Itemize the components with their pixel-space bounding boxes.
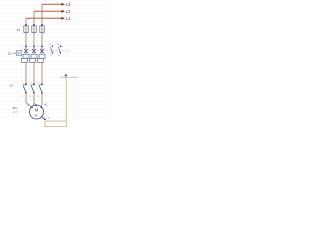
wire contactor to motor V — [34, 93, 36, 106]
breaker Q1 pole 1 terminal dot — [25, 46, 27, 48]
svg-text:M1: M1 — [13, 106, 18, 110]
wire contactor to motor W — [40, 93, 43, 108]
contactor K1 pole 2 fixed tick — [31, 84, 34, 86]
svg-text:F1: F1 — [17, 28, 21, 32]
contactor K1 pole 1 blade — [23, 85, 26, 92]
wire L3 drop to fuse 3 — [41, 4, 43, 46]
aux contact 95-96 blade — [58, 47, 60, 52]
wire breaker to contactor phase 1 — [25, 62, 27, 84]
aux contact 95-96 bottom dot — [60, 52, 61, 53]
contactor K1 pole 2 top dot — [33, 83, 35, 85]
breaker Q1 magnetic element pole 3 — [37, 58, 43, 62]
wire L3 horizontal — [42, 3, 62, 5]
wire fuse to breaker phase 2 — [33, 46, 35, 55]
wire riser to terminal box — [65, 78, 67, 122]
breaker Q1 thermal element pole 3 — [39, 54, 45, 58]
motor M1 body circle — [30, 105, 44, 119]
motor M1 terminal dot V — [36, 105, 38, 107]
breaker Q1 pole 1 breaker cross — [24, 49, 28, 53]
wire contactor to motor U — [26, 93, 32, 107]
breaker Q1 actuator crossed square — [17, 51, 22, 56]
aux contact 13-14 top stub — [51, 45, 53, 47]
aux contact 95-96 top dot — [60, 46, 61, 47]
contactor K1 pole 2 bottom dot — [33, 92, 35, 94]
svg-text:L1: L1 — [66, 16, 71, 21]
wire breaker to contactor phase 3 — [41, 62, 43, 84]
breaker Q1 mechanical dashed link — [22, 50, 70, 52]
contactor K1 pole 1 fixed tick — [23, 84, 26, 86]
fuse F1 pole 2 terminal dot — [33, 24, 35, 26]
fuse F1 pole 1 terminal dot — [25, 24, 27, 26]
contactor K1 pole 2 blade — [31, 85, 34, 92]
wire motor PE tail — [41, 117, 44, 119]
node riser top tick — [60, 76, 78, 78]
fuse F1 pole 3 body — [40, 26, 44, 33]
node L3 arrow — [62, 3, 65, 6]
wire L2 horizontal — [34, 10, 62, 12]
contactor K1 pole 3 top dot — [41, 83, 43, 85]
motor M1 terminal dot W — [41, 107, 43, 109]
svg-text:K1: K1 — [10, 83, 14, 87]
contactor K1 pole 3 blade — [39, 85, 42, 92]
wire L2 drop to fuse 2 — [33, 11, 35, 46]
contactor K1 pole 1 top dot — [25, 83, 27, 85]
aux contact 13-14 bottom stub — [51, 53, 53, 55]
motor M1 terminal dot U — [31, 106, 33, 108]
svg-text:3~: 3~ — [35, 114, 39, 118]
breaker Q1 pole 2 breaker cross — [32, 49, 36, 53]
breaker Q1 magnetic element pole 1 — [21, 58, 27, 62]
wire breaker to contactor phase 2 — [33, 62, 35, 84]
svg-text:L2: L2 — [66, 9, 71, 14]
aux contact 13-14 blade — [50, 47, 52, 52]
breaker Q1 pole 3 breaker cross — [40, 49, 44, 53]
svg-text:Q1: Q1 — [8, 52, 12, 56]
node riser arrow up — [64, 73, 67, 76]
breaker Q1 magnetic element pole 2 — [29, 58, 35, 62]
terminal box X1 — [45, 121, 66, 127]
wire fuse to breaker phase 1 — [25, 46, 27, 55]
breaker Q1 pole 2 terminal dot — [33, 46, 35, 48]
aux contact 95-96 top stub — [59, 45, 61, 47]
node L1 arrow — [62, 17, 65, 20]
svg-text:3kW: 3kW — [13, 111, 19, 114]
aux contact 95-96 NC tick — [60, 46, 63, 48]
contactor K1 pole 1 bottom dot — [25, 92, 27, 94]
svg-text:M: M — [35, 108, 39, 113]
breaker Q1 thermal element pole 1 — [23, 54, 29, 58]
fuse F1 pole 2 body — [32, 26, 36, 33]
contactor K1 pole 3 fixed tick — [39, 84, 42, 86]
aux contact 95-96 bottom stub — [59, 53, 61, 55]
wire fuse to breaker phase 3 — [41, 46, 43, 55]
svg-text:L3: L3 — [66, 2, 71, 7]
wire L1 horizontal — [26, 17, 62, 19]
aux contact 13-14 bottom dot — [52, 52, 53, 53]
breaker Q1 actuator stub — [14, 52, 17, 54]
fuse F1 pole 3 terminal dot — [41, 24, 43, 26]
breaker Q1 pole 3 terminal dot — [41, 46, 43, 48]
node PE terminal dot — [44, 118, 46, 120]
node L2 arrow — [62, 10, 65, 13]
wire L1 drop to fuse 1 — [25, 18, 27, 46]
contactor K1 pole 3 bottom dot — [41, 92, 43, 94]
fuse F1 pole 1 body — [24, 26, 28, 33]
aux contact 13-14 top dot — [52, 46, 53, 47]
breaker Q1 thermal element pole 2 — [31, 54, 37, 58]
